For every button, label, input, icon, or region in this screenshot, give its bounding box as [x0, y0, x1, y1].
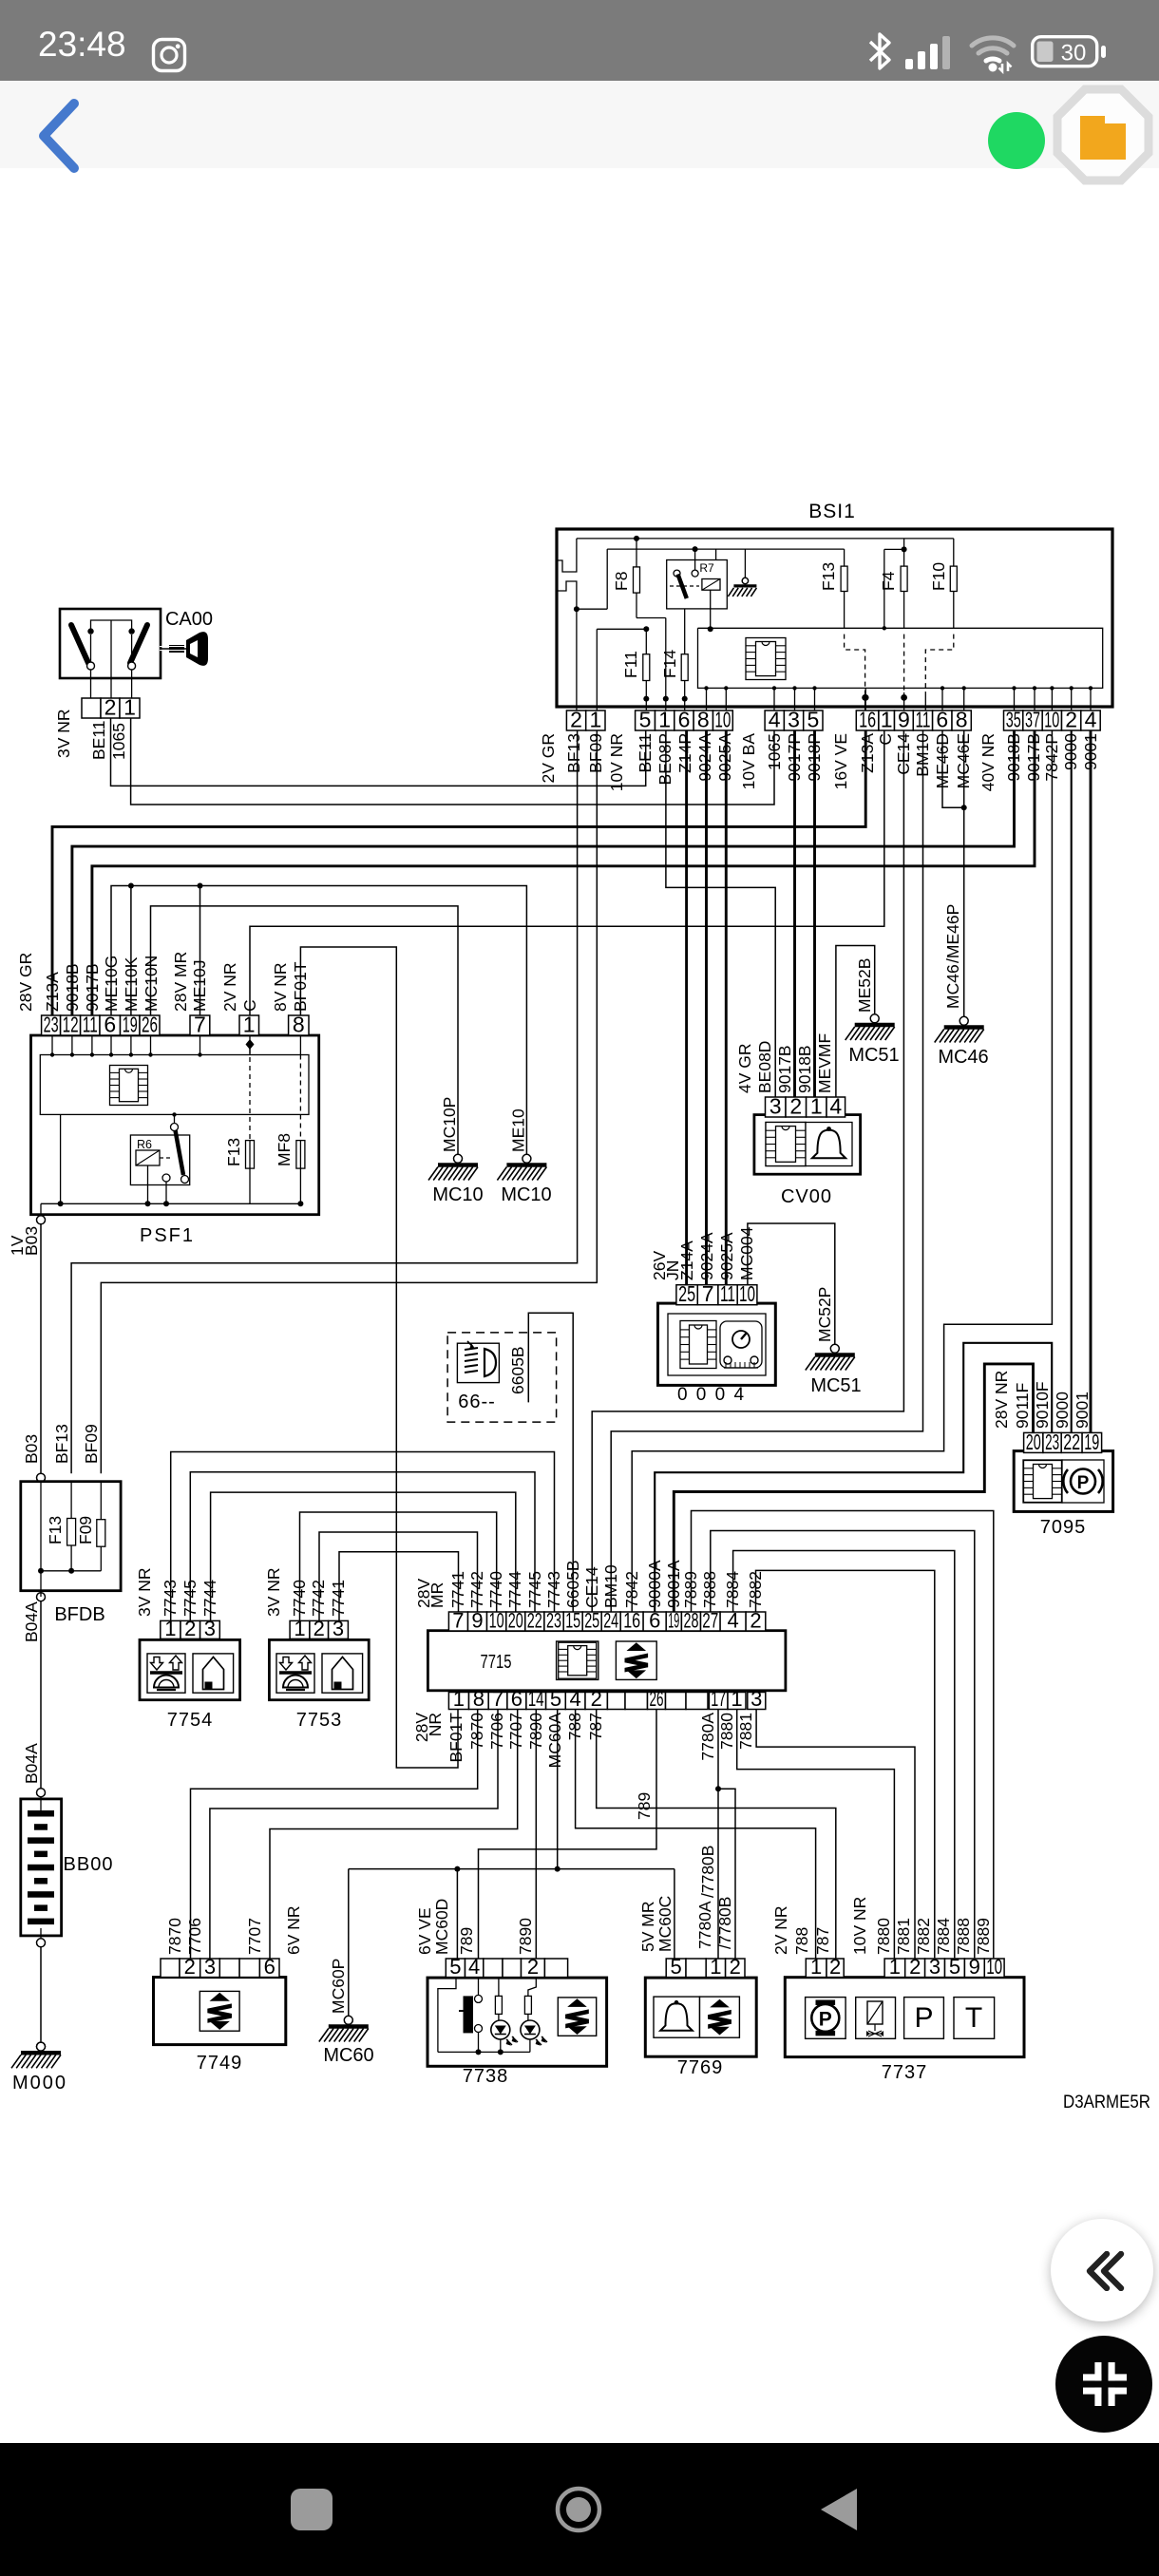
svg-text:3: 3: [929, 1955, 940, 1979]
wire BF09 (BSI-1 to BFDB): [101, 730, 597, 1473]
svg-text:14: 14: [528, 1687, 544, 1711]
svg-text:9000: 9000: [1061, 733, 1080, 770]
svg-text:B04A: B04A: [22, 1601, 41, 1642]
svg-text:7881: 7881: [894, 1918, 913, 1955]
BSI internal supply wire top: [577, 538, 954, 540]
svg-text:BE11: BE11: [89, 720, 108, 760]
wire 9001A/9011F (7715-19 to 7095-20): [674, 1364, 1033, 1612]
svg-text:7743: 7743: [161, 1580, 180, 1617]
relay R7: [667, 560, 728, 609]
svg-text:ME46D: ME46D: [933, 733, 952, 788]
module PSF1: [31, 1035, 319, 1215]
svg-text:BF13: BF13: [52, 1424, 71, 1464]
fuse F8: [634, 536, 639, 541]
svg-text:35: 35: [1006, 708, 1021, 732]
svg-text:MC46: MC46: [943, 964, 962, 1009]
svg-text:28V MR: 28V MR: [171, 952, 190, 1012]
svg-text:BE08P: BE08P: [655, 733, 674, 785]
svg-text:BM10: BM10: [913, 733, 932, 777]
svg-text:7715: 7715: [481, 1652, 512, 1673]
svg-text:9: 9: [471, 1609, 483, 1633]
wire 9001 (BSI-4 to 7095-19): [1090, 730, 1092, 1432]
fuse F4: [903, 539, 905, 566]
wire 789 (7715-26 to 7738-4): [479, 1709, 657, 1959]
svg-text:6: 6: [649, 1609, 660, 1633]
fullscreen floating button: [1055, 2336, 1152, 2433]
7715 ic box: [557, 1641, 598, 1679]
svg-text:ME10: ME10: [509, 1108, 528, 1152]
svg-text:F4: F4: [879, 571, 898, 591]
7095 pin row: [1024, 1432, 1043, 1452]
svg-text:9001: 9001: [1073, 1392, 1092, 1429]
svg-text:7889: 7889: [974, 1918, 993, 1955]
svg-text:MC51: MC51: [848, 1045, 899, 1066]
wire B03 (PSF1 to BFDB): [40, 1224, 42, 1473]
svg-text:7742: 7742: [309, 1580, 328, 1617]
BSI left stair connector: [558, 539, 577, 572]
wire 788 (7715-4 to 7737-1): [576, 1709, 816, 1959]
wire BF01T (PSF1-8 to 7715-1): [300, 947, 458, 1768]
wire MC60D to 7738-5: [456, 1869, 458, 1959]
wire 7890 (7715-14 to 7738-2): [535, 1709, 537, 1959]
7738 bottom bus: [438, 2051, 530, 2053]
wire BE11 (CA00-2 to BSI-5): [111, 718, 646, 786]
PSF1 internal ic: [110, 1066, 148, 1106]
PSF1 pin stubs: [51, 1032, 53, 1055]
svg-text:MC46E: MC46E: [954, 733, 973, 788]
svg-text:28: 28: [684, 1609, 699, 1633]
collapse floating button: [1051, 2219, 1153, 2321]
svg-text:CE14: CE14: [582, 1566, 601, 1608]
wire Z14P/Z14A (BSI-6 to 0004-25): [685, 730, 688, 1285]
svg-text:MC60: MC60: [323, 2045, 373, 2066]
wire 7880 (7715-1 to 7737-1): [737, 1709, 895, 1959]
wire BF13 (BSI-2 to BFDB): [71, 730, 578, 1473]
svg-text:MF8: MF8: [275, 1133, 294, 1166]
svg-text:6605B: 6605B: [563, 1560, 582, 1608]
svg-text:F13: F13: [819, 562, 838, 591]
svg-text:10: 10: [1044, 708, 1059, 732]
ground MC51 (MC52P): [830, 1344, 839, 1353]
fuse MF8 in PSF1: [299, 1055, 301, 1141]
svg-text:1: 1: [294, 1617, 305, 1640]
svg-text:C: C: [876, 733, 895, 746]
svg-text:Z14P: Z14P: [675, 733, 694, 773]
svg-text:PSF1: PSF1: [140, 1225, 195, 1246]
CV00 bell box: [806, 1123, 852, 1166]
svg-text:BE08D: BE08D: [755, 1041, 774, 1093]
svg-text:BF09: BF09: [586, 733, 605, 773]
svg-text:19: 19: [1084, 1430, 1099, 1454]
wire 7882 (7715-2 to 7737-3): [756, 1570, 935, 1958]
CA00 pin row: [82, 698, 101, 718]
svg-text:7706: 7706: [487, 1713, 506, 1750]
wire MC10N to ground MC10P: [151, 906, 459, 1154]
wire MC60P to ground MC60: [348, 1869, 350, 2017]
svg-text:25: 25: [584, 1609, 599, 1633]
svg-text:1: 1: [123, 695, 136, 720]
svg-text:9017B: 9017B: [1024, 733, 1043, 782]
7738 pin row: [446, 1959, 465, 1978]
svg-text:0 0 0 4: 0 0 0 4: [677, 1385, 746, 1405]
svg-text:2: 2: [909, 1955, 921, 1979]
android navigation bar: [0, 2443, 1159, 2576]
0004 ic: [680, 1321, 716, 1369]
svg-text:4: 4: [569, 1687, 580, 1711]
svg-text:7889: 7889: [681, 1571, 700, 1608]
connector CA00 (ignition switch): [60, 609, 161, 678]
svg-text:2: 2: [591, 1687, 602, 1711]
svg-text:7882: 7882: [914, 1918, 933, 1955]
CV00 pin row: [766, 1097, 787, 1117]
svg-text:26: 26: [142, 1013, 158, 1037]
svg-text:6V VE: 6V VE: [415, 1907, 434, 1955]
7737 valve icon: [856, 1998, 896, 2039]
svg-text:5: 5: [807, 708, 820, 732]
svg-text:MC10: MC10: [432, 1184, 483, 1205]
svg-text:9010F: 9010F: [1033, 1381, 1052, 1429]
svg-text:F09: F09: [76, 1516, 95, 1544]
svg-text:66--: 66--: [458, 1392, 496, 1412]
svg-text:2V NR: 2V NR: [220, 962, 239, 1012]
svg-text:789: 789: [635, 1792, 654, 1820]
svg-text:4: 4: [468, 1955, 480, 1979]
svg-text:7741: 7741: [448, 1571, 467, 1608]
svg-text:BB00: BB00: [64, 1854, 114, 1875]
svg-text:4V GR: 4V GR: [735, 1043, 754, 1093]
svg-text:7745: 7745: [180, 1580, 199, 1617]
0004 gauge icon: [720, 1321, 762, 1368]
svg-text:9017B: 9017B: [775, 1045, 794, 1093]
svg-text:7740: 7740: [486, 1571, 505, 1608]
svg-text:F8: F8: [612, 572, 631, 591]
wire 9017P (BSI-3 to CV00-2): [793, 730, 796, 1097]
svg-text:20: 20: [508, 1609, 523, 1633]
BFDB internal bus: [41, 1570, 101, 1572]
svg-text:22: 22: [527, 1609, 542, 1633]
svg-text:CV00: CV00: [781, 1186, 832, 1207]
fuse F13 in PSF1: [249, 1049, 251, 1141]
svg-text:F11: F11: [621, 651, 640, 678]
svg-text:11: 11: [83, 1013, 98, 1037]
BSI inner unit box: [698, 628, 1103, 688]
svg-text:7888: 7888: [954, 1918, 973, 1955]
svg-text:9001A: 9001A: [664, 1560, 683, 1608]
svg-text:8V NR: 8V NR: [271, 962, 290, 1012]
back chevron: [34, 98, 82, 174]
wire BE08P/BE08D (BSI-1 to CV00-3): [666, 730, 775, 1097]
module 7769: [645, 1978, 756, 2056]
svg-text:10V NR: 10V NR: [607, 733, 626, 791]
7737 motor P icon: [806, 1998, 846, 2039]
svg-text:20: 20: [1026, 1430, 1041, 1454]
svg-text:F10: F10: [929, 562, 948, 591]
wifi icon: [968, 32, 1021, 74]
BSI internal ic: [746, 638, 786, 680]
wire BM10 (BSI-11 to 7715-24): [611, 730, 922, 1612]
svg-text:2V GR: 2V GR: [539, 733, 558, 784]
bluetooth icon: [861, 31, 899, 71]
svg-text:26: 26: [650, 1687, 664, 1711]
wire 9000A/9010F (7715-6 to 7095-23): [655, 1343, 1052, 1612]
svg-text:7884: 7884: [723, 1571, 742, 1608]
svg-text:6605B: 6605B: [508, 1346, 527, 1394]
svg-text:9000: 9000: [1053, 1392, 1072, 1429]
svg-text:7: 7: [452, 1609, 464, 1633]
svg-text:7890: 7890: [526, 1713, 545, 1750]
svg-text:1: 1: [590, 708, 602, 732]
svg-text:7881: 7881: [736, 1713, 755, 1750]
PSF1 bottom bus: [41, 1203, 300, 1204]
BFDB internal wire B03: [40, 1482, 42, 1597]
wire Z13A (PSF1-23 to BSI-16): [52, 730, 865, 1015]
svg-text:7707: 7707: [245, 1918, 264, 1955]
svg-text:/ME46P: /ME46P: [943, 904, 962, 963]
svg-text:7842P: 7842P: [1042, 733, 1061, 782]
ground MC51 (ME52B): [870, 1014, 879, 1023]
svg-text:BF09: BF09: [82, 1424, 101, 1464]
7738 motor icon: [558, 1998, 596, 2036]
BSI pin row: [566, 710, 585, 730]
svg-text:787: 787: [586, 1713, 605, 1740]
wire 1065 (CA00-1 to BSI-4): [131, 718, 774, 805]
svg-text:1: 1: [658, 708, 671, 732]
svg-text:3: 3: [750, 1687, 762, 1711]
svg-text:16: 16: [623, 1609, 640, 1633]
svg-text:3V NR: 3V NR: [54, 709, 73, 758]
wire MC004 (0004-10 to ground MC51): [748, 1223, 835, 1344]
svg-text:2: 2: [184, 1617, 196, 1640]
wire 9000 (BSI-2 to 7095-22): [1071, 730, 1073, 1432]
svg-text:B03: B03: [22, 1434, 41, 1464]
svg-text:4: 4: [727, 1609, 738, 1633]
svg-text:28V NR: 28V NR: [992, 1371, 1011, 1429]
wire 7740 (7753-1 to 7715-10): [300, 1512, 497, 1620]
svg-text:3: 3: [332, 1617, 344, 1640]
7737 pin row: [806, 1959, 826, 1978]
svg-text:3: 3: [204, 1955, 216, 1979]
svg-text:5: 5: [550, 1687, 561, 1711]
wire ME10J branch: [199, 886, 201, 1016]
svg-text:10V NR: 10V NR: [850, 1897, 869, 1955]
svg-text:9018B: 9018B: [63, 963, 82, 1012]
wire 9025A (BSI-10 to 0004-11): [725, 730, 728, 1285]
ground MC10P: [454, 1154, 463, 1163]
svg-text:ME10K: ME10K: [122, 957, 141, 1012]
svg-text:BM10: BM10: [601, 1564, 620, 1608]
svg-text:1: 1: [164, 1617, 176, 1640]
svg-text:ME10J: ME10J: [190, 960, 209, 1012]
wire CE14 (BSI-9 to 7715-25): [592, 730, 903, 1612]
app toolbar: [0, 81, 1159, 168]
svg-text:15: 15: [565, 1609, 580, 1633]
nav square button: [291, 2489, 332, 2530]
svg-text:MC60C: MC60C: [655, 1896, 674, 1952]
svg-text:2: 2: [527, 1955, 539, 1979]
svg-text:10V BA: 10V BA: [739, 733, 758, 790]
svg-text:5V MR: 5V MR: [638, 1902, 657, 1952]
svg-text:Z13A: Z13A: [858, 733, 877, 773]
7095 ic box: [1023, 1460, 1062, 1503]
wire ME46D (BSI-6): [942, 730, 964, 807]
svg-text:8: 8: [956, 708, 968, 732]
svg-text:MC60P: MC60P: [329, 1959, 348, 2014]
svg-text:1065: 1065: [765, 733, 784, 770]
svg-text:7737: 7737: [882, 2062, 928, 2083]
svg-text:7738: 7738: [463, 2066, 509, 2087]
svg-text:BSI1: BSI1: [808, 501, 856, 522]
svg-text:9: 9: [969, 1955, 980, 1979]
svg-text:7870: 7870: [467, 1713, 486, 1750]
svg-text:2V NR: 2V NR: [771, 1905, 790, 1955]
svg-text:/7780B: /7780B: [715, 1897, 734, 1949]
fuse F13 in BFDB: [70, 1482, 72, 1519]
svg-text:7743: 7743: [544, 1571, 563, 1608]
svg-text:2: 2: [313, 1617, 325, 1640]
svg-text:M000: M000: [12, 2073, 67, 2093]
svg-text:10: 10: [739, 1281, 755, 1306]
wire MC46E to ground MC46: [963, 730, 965, 1016]
fusebox BFDB: [21, 1482, 121, 1591]
BSI pin stubs: [706, 688, 708, 710]
7095 parking brake icon: [1062, 1460, 1104, 1503]
svg-text:17: 17: [711, 1687, 726, 1711]
svg-text:788: 788: [792, 1927, 811, 1955]
svg-text:4: 4: [769, 708, 781, 732]
svg-text:R7: R7: [699, 561, 714, 575]
svg-text:3: 3: [204, 1617, 216, 1640]
PSF1 inner unit box: [40, 1055, 309, 1115]
wire ME10K branch: [130, 886, 132, 1016]
svg-text:R6: R6: [137, 1138, 152, 1151]
svg-text:MC46: MC46: [938, 1047, 988, 1068]
7737 P icon: [904, 1998, 944, 2039]
svg-text:Z13A: Z13A: [43, 972, 62, 1012]
svg-text:19: 19: [123, 1013, 138, 1037]
wire 7743 (7754-1 to 7715-23): [171, 1452, 555, 1621]
svg-text:9017B: 9017B: [83, 963, 102, 1012]
svg-text:MC004: MC004: [737, 1226, 756, 1280]
BSI internal wire 2: [607, 548, 844, 550]
signal bars: [905, 34, 962, 70]
svg-text:9001: 9001: [1081, 733, 1100, 770]
fuse F13 in BSI: [844, 549, 845, 566]
instagram icon: [151, 37, 187, 73]
wire 7780A (7715-17 to 7769-1): [717, 1709, 719, 1959]
7715 motor symbol: [616, 1641, 656, 1679]
fuse F14: [684, 597, 686, 710]
wire C (PSF1-1 to BSI-1): [250, 730, 884, 1015]
wire 7744 (7754-3 to 7715-20): [211, 1492, 516, 1620]
svg-text:22: 22: [1063, 1430, 1080, 1454]
wire 7706 (7715-7 to 7749-3): [210, 1709, 498, 1959]
svg-text:MC10: MC10: [501, 1184, 551, 1205]
svg-text:37: 37: [1025, 708, 1040, 732]
wire B04A (BB00 to M000): [40, 1947, 42, 2042]
svg-text:7707: 7707: [506, 1713, 525, 1750]
svg-text:6: 6: [264, 1955, 275, 1979]
svg-text:ME10G: ME10G: [102, 956, 121, 1012]
svg-text:2: 2: [184, 1955, 196, 1979]
svg-text:ME52B: ME52B: [855, 958, 874, 1013]
svg-text:9025A: 9025A: [715, 733, 734, 782]
svg-text:3: 3: [769, 1094, 782, 1119]
svg-text:9: 9: [898, 708, 910, 732]
svg-text:7769: 7769: [677, 2057, 724, 2078]
svg-text:CA00: CA00: [165, 609, 213, 630]
svg-text:23: 23: [546, 1609, 561, 1633]
svg-text:7744: 7744: [505, 1571, 524, 1608]
wire 7741 (7753-3 to 7715-7): [339, 1552, 459, 1621]
svg-text:9011F: 9011F: [1013, 1383, 1032, 1429]
wire 7889 (7715-28 to 7737-10): [692, 1511, 994, 1959]
svg-text:2: 2: [570, 708, 582, 732]
svg-text:2: 2: [789, 1094, 802, 1119]
module 7095: [1014, 1451, 1112, 1512]
svg-text:F13: F13: [46, 1516, 65, 1544]
svg-text:7780A: 7780A: [695, 1901, 714, 1949]
module 7737: [785, 1978, 1024, 2057]
svg-text:25: 25: [678, 1281, 695, 1306]
svg-text:2: 2: [829, 1955, 841, 1979]
module 0004: [658, 1303, 776, 1385]
svg-text:9024A: 9024A: [697, 1232, 716, 1280]
module CV00: [754, 1115, 861, 1175]
svg-text:MC51: MC51: [810, 1375, 861, 1396]
switch 7754: [140, 1639, 240, 1699]
7737 T icon: [954, 1998, 995, 2039]
svg-text:40V NR: 40V NR: [978, 733, 997, 791]
switch 7753: [269, 1639, 369, 1699]
svg-text:6: 6: [104, 1013, 116, 1037]
svg-text:9018B: 9018B: [1004, 733, 1023, 782]
battery icon: [1031, 35, 1109, 69]
svg-text:7780A: 7780A: [698, 1713, 717, 1761]
nav circle button: [554, 2485, 603, 2534]
wire 7842P (BSI-10 to 7715-16): [632, 730, 1052, 1612]
svg-text:5: 5: [670, 1955, 681, 1979]
svg-text:10: 10: [986, 1955, 1002, 1979]
svg-text:11: 11: [720, 1281, 735, 1306]
svg-text:1: 1: [453, 1687, 465, 1711]
7715 top pin row: [448, 1612, 467, 1631]
svg-text:9025A: 9025A: [717, 1232, 736, 1280]
module 7738: [427, 1978, 607, 2066]
7754 pin row: [161, 1620, 180, 1638]
svg-text:NR: NR: [426, 1713, 445, 1736]
0004 pin row: [676, 1285, 697, 1305]
motor 7749: [154, 1978, 286, 2045]
wire MC60A from 7715-5: [557, 1709, 559, 1869]
svg-text:7740: 7740: [290, 1580, 309, 1617]
svg-text:MC60A: MC60A: [545, 1713, 564, 1769]
relay R6: [130, 1135, 189, 1185]
svg-text:1: 1: [810, 1094, 823, 1119]
CV00 ic box: [766, 1123, 806, 1166]
svg-text:B04A: B04A: [22, 1743, 41, 1784]
svg-text:2: 2: [1065, 708, 1077, 732]
svg-text:/7780B: /7780B: [698, 1846, 717, 1898]
svg-text:27: 27: [702, 1609, 718, 1633]
wire MEVMF (CV00-4 to ground MC51): [836, 946, 875, 1098]
battery BB00: [21, 1799, 62, 1936]
svg-text:7745: 7745: [525, 1571, 544, 1608]
svg-text:5: 5: [449, 1955, 461, 1979]
svg-text:BFDB: BFDB: [54, 1604, 104, 1625]
svg-text:7742: 7742: [467, 1571, 486, 1608]
svg-text:MC10N: MC10N: [142, 956, 161, 1012]
wire 7888 (7715-27 to 7737-9): [711, 1531, 975, 1959]
